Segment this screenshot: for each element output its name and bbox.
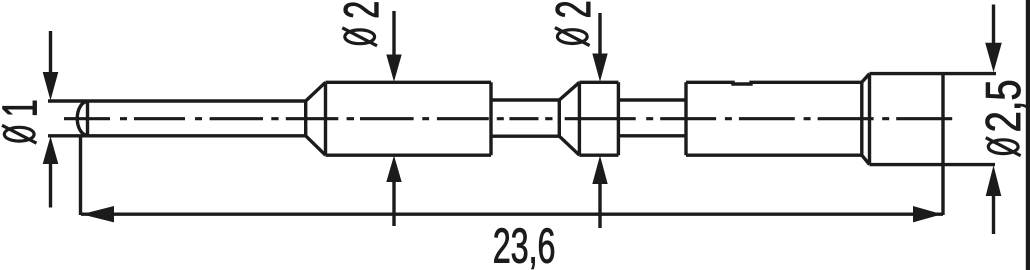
diameter symbol of label Ø1 bbox=[4, 127, 34, 141]
label 23,6 bbox=[494, 228, 554, 269]
neck 1 bbox=[491, 100, 559, 136]
dim O2 second top arrow line bbox=[598, 13, 601, 54]
dim O2.5 top arrow line bbox=[992, 5, 995, 44]
block (second diameter-2 section) bbox=[579, 82, 618, 155]
dim O2 first bottom arrow line bbox=[392, 182, 395, 226]
arrowhead O2 first down bbox=[386, 55, 401, 82]
arrowhead O2.5 down bbox=[985, 43, 1002, 73]
dim O2 first top arrow line bbox=[392, 11, 395, 55]
diameter symbol of label Ø2 first bbox=[345, 30, 375, 44]
arrowhead O2 first up bbox=[386, 156, 401, 183]
arrowhead O1 down bbox=[43, 72, 59, 101]
label Ø2 first numeral bbox=[344, 2, 379, 17]
dim O1 top arrow line bbox=[49, 31, 52, 72]
neck 2 bbox=[618, 100, 686, 136]
label Ø2.5 numerals bbox=[986, 81, 1027, 130]
arrowhead O2 second up bbox=[592, 156, 607, 185]
dim 23,6 left extension line bbox=[79, 136, 82, 215]
big cylinder (diameter 2.5) with extension lines bbox=[870, 74, 997, 215]
arrowhead O1 up bbox=[43, 136, 59, 164]
arrowhead O2.5 up bbox=[986, 165, 1002, 196]
dim O1 bottom arrow line bbox=[49, 164, 52, 208]
diameter symbol of label Ø2.5 bbox=[988, 140, 1018, 154]
cone 1 bbox=[306, 82, 326, 155]
diameter symbol of label Ø2 second bbox=[557, 30, 587, 44]
label Ø1 numeral bbox=[3, 101, 37, 115]
label Ø2 second numeral bbox=[556, 2, 591, 17]
pin bottom edge (with left extension line) bbox=[48, 134, 306, 137]
arrowhead 23,6 right bbox=[913, 206, 942, 222]
arrowhead O2 second down bbox=[592, 54, 607, 82]
pin cap line bbox=[86, 101, 89, 136]
dim O2 second bottom arrow line bbox=[598, 184, 601, 228]
cone 3 bbox=[862, 74, 870, 165]
cylinder 1 bbox=[326, 82, 492, 155]
long cylinder bbox=[686, 82, 862, 155]
centerline bbox=[64, 117, 952, 120]
dim 23,6 dimension line bbox=[81, 212, 943, 215]
dim O2.5 bottom arrow line bbox=[992, 196, 995, 234]
right page border line bbox=[1026, 0, 1030, 270]
pin top edge (with left extension line) bbox=[48, 99, 306, 102]
cone 2 bbox=[559, 82, 579, 155]
pin tip arc bbox=[77, 102, 87, 136]
arrowhead 23,6 left bbox=[82, 206, 115, 222]
